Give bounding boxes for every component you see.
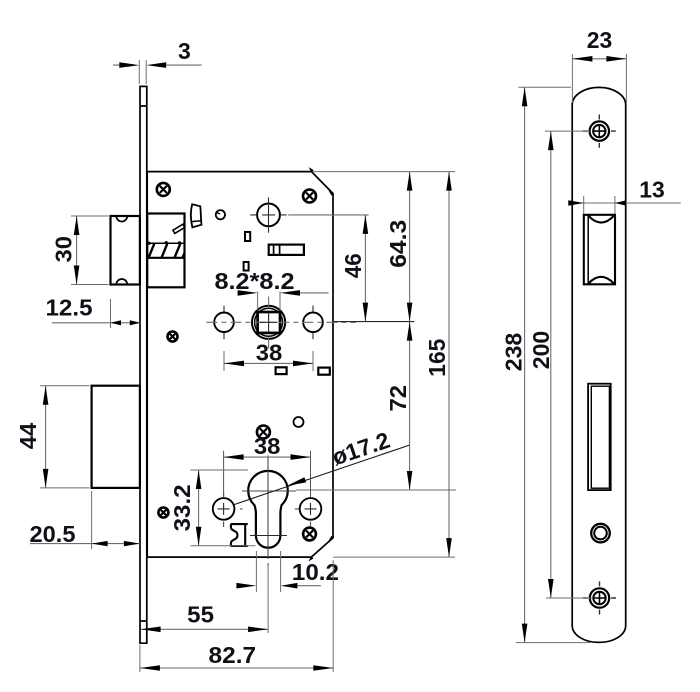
node: bolt-row left circle: [213, 498, 235, 520]
dimension 3 (faceplate thickness): [139, 60, 146, 84]
dimension 238 (faceplate length): [516, 87, 590, 642]
wire: cylinder row extension: [296, 489, 456, 491]
screw mid-left: [168, 332, 178, 342]
dimension 38 (handle hole spacing): [224, 351, 313, 371]
node: deadbolt: [92, 386, 140, 488]
svg-text:82.7: 82.7: [209, 642, 257, 668]
screw top-right: [303, 190, 316, 203]
node: top screw hole: [590, 121, 609, 140]
dimension 55 (backset): [140, 560, 333, 672]
wire: cylinder centerline extension down: [267, 563, 269, 633]
wire: cylinder centerlines: [267, 456, 269, 567]
screw center: [257, 426, 270, 439]
dimension 13 (latch cutout width): [584, 196, 615, 214]
node: deadbolt cutout: [588, 384, 611, 490]
svg-text:64.3: 64.3: [385, 220, 411, 268]
dimension 12.5 (latch projection): [110, 299, 112, 328]
dimension 20.5 (deadbolt projection): [91, 491, 93, 549]
node: curved lever arc piece: [191, 204, 202, 227]
svg-text:12.5: 12.5: [46, 294, 93, 320]
node: small rect hole below spindle left: [276, 367, 287, 374]
wire: hub centerlines: [268, 198, 270, 233]
svg-text:10.2: 10.2: [292, 559, 339, 585]
dimension 8.2*8.2 (spindle square): [258, 292, 280, 311]
node: stop slide rectangle: [269, 245, 304, 255]
svg-text:30: 30: [51, 236, 77, 263]
wire: spindle vertical centerline: [268, 297, 270, 349]
node: small rectangular hole upper: [245, 232, 250, 241]
node: small circle right of center screw: [294, 417, 304, 427]
wire: top extension line y=171.6: [313, 171, 455, 173]
dimension 38 (cylinder fixing spacing): [224, 451, 311, 497]
dimension 200 (screw spacing): [545, 131, 592, 598]
node: handle hub hole: [257, 204, 280, 227]
svg-text:44: 44: [15, 423, 41, 450]
node: euro profile cylinder hole: [248, 471, 288, 548]
svg-text:200: 200: [528, 331, 554, 370]
dimension 165 (case height): [448, 172, 450, 557]
node: cylinder screw hole: [591, 524, 610, 543]
svg-text:20.5: 20.5: [30, 521, 76, 547]
svg-text:13: 13: [639, 176, 665, 202]
node: latch spring coil: [147, 243, 185, 259]
node: small pin circle: [216, 210, 225, 219]
svg-text:38: 38: [256, 339, 283, 365]
dimension 72 (spindle to cylinder): [409, 322, 411, 490]
node: right handle screw hole: [303, 313, 323, 333]
dimension 82.7 (case depth): [140, 667, 333, 669]
screw lower-left: [158, 508, 168, 518]
node: faceplate front view outline: [572, 87, 626, 642]
dimension phi17.2 leader: [234, 445, 409, 504]
node: latch bolt protruding through faceplate: [111, 216, 140, 285]
svg-text:8.2*8.2: 8.2*8.2: [215, 268, 295, 294]
wire: spindle row horizontal centerline: [206, 321, 356, 323]
dimension 44 (deadbolt height): [40, 386, 90, 488]
wire: spindle row extension to dims: [333, 321, 414, 323]
node: small rect hole below spindle right: [318, 368, 330, 375]
svg-text:23: 23: [587, 27, 613, 53]
wire: case bottom extension: [333, 556, 455, 558]
node: bolt-row right circle: [300, 498, 322, 520]
node: small rectangular hole lower: [244, 262, 249, 271]
node: small tilted bar (spring arm): [173, 224, 185, 233]
dimension 64.3 (top to spindle): [409, 172, 411, 322]
svg-text:38: 38: [254, 433, 281, 459]
svg-text:238: 238: [501, 333, 527, 372]
svg-text:33.2: 33.2: [169, 484, 195, 531]
screw top-left: [157, 183, 170, 196]
node: latch cutout spool: [584, 215, 615, 284]
dimension 23 (faceplate width): [572, 54, 626, 103]
node: lock case outline with chamfered corners: [147, 172, 333, 557]
dimension 33.2 (cylinder height): [191, 470, 256, 546]
node: cylinder fixing bracket: [231, 524, 248, 546]
dimension 46 (hub to spindle): [364, 215, 366, 322]
node: square spindle hole 8.2x8.2: [258, 312, 280, 333]
wire: chamfer tick marks: [310, 168, 333, 560]
node: spindle follower circles: [252, 306, 285, 339]
wire: faceplate side view outline: [140, 86, 147, 643]
node: bottom screw hole: [590, 588, 609, 607]
svg-text:46: 46: [340, 253, 366, 278]
svg-text:55: 55: [187, 601, 214, 627]
wire: extension line for 46 from hub center: [288, 214, 368, 216]
node: left handle screw hole: [214, 313, 234, 333]
node: latch guide box inside case: [147, 214, 184, 288]
svg-text:72: 72: [385, 385, 411, 412]
screw bottom-right: [303, 528, 316, 541]
svg-text:165: 165: [424, 338, 450, 376]
dimension 10.2 (stem width): [256, 551, 280, 592]
dimension 30 (latch height): [71, 216, 109, 285]
wire: circle centerline ticks: [224, 306, 313, 340]
svg-text:3: 3: [178, 38, 191, 64]
